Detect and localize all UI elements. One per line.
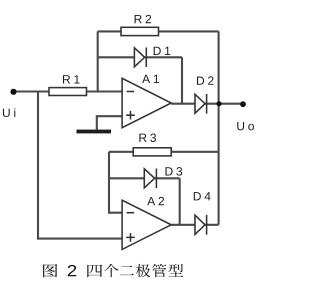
label D3 [165,167,182,175]
wire: lower-left vertical down to A2 inverting input [109,152,122,213]
wire: R3 feedback run [109,151,219,153]
wire: D1 branch (anode run) [98,56,182,58]
label R2 [135,15,152,23]
diode D3 [144,169,156,189]
wire: input line Ui to A1 inverting input [14,90,123,92]
diode D4 [195,215,207,235]
wire: branch down from input node to A2 non-inverting input [38,92,122,239]
resistor R2 [121,27,159,35]
resistor R1 [49,88,87,96]
diode D1 [134,48,146,68]
label Uo [237,122,254,130]
wire: A1 non-inverting input to ground [97,116,122,129]
caption digit 2 [68,265,77,276]
node: Uo output terminal [240,101,246,107]
diode D2 [195,94,207,114]
label A1 [142,75,159,83]
op-amp A2 [122,200,171,249]
ground (A1 non-inverting reference) [77,130,112,134]
wire: A1 output to Uo terminal [171,103,243,105]
label A2 [147,197,164,205]
label D2 [197,76,214,84]
wire: A2 output to D4 [171,224,218,226]
caption: 图 2 四个二极管型 (vector CJK glyphs) [43,264,183,277]
node: Ui input terminal [10,89,16,95]
node: output junction (D2/D4 cathodes meet) [216,101,221,106]
wire: inverting node up to R2 feedback [97,31,99,91]
label D1 [154,47,171,55]
op-amp A1 [122,78,171,127]
wire: R2 feedback top run [98,30,219,32]
wire: D3 cathode down to A2 output [179,178,181,225]
wire: main right vertical bus (R2 / output node / R3 / D4) [218,31,220,224]
label D4 [194,192,211,200]
resistor R3 [133,148,171,156]
label Ui [3,108,15,117]
label R1 [63,75,80,83]
wire: D3 branch (anode run) [109,177,180,179]
label R3 [139,134,156,142]
wire: D1 cathode down to A1 output [181,57,183,103]
